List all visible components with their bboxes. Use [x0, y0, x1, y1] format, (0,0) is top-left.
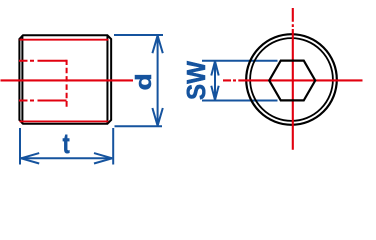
- svg-text:t: t: [63, 128, 70, 160]
- svg-text:SW: SW: [182, 61, 211, 100]
- svg-text:d: d: [132, 73, 157, 90]
